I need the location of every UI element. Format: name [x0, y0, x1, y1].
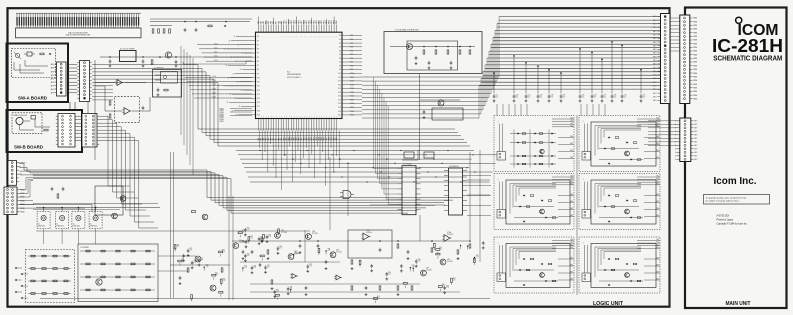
- wire bundle below IC5 (verticals): [260, 131, 340, 191]
- connector J11 (right panel edge upper): [680, 15, 698, 104]
- svg-text:RL0: RL0: [656, 176, 659, 178]
- svg-text:4.7K: 4.7K: [181, 260, 184, 262]
- bus left risers: [479, 17, 499, 118]
- sub box around Q21: [95, 186, 123, 215]
- resistor matrix block B: [78, 244, 158, 302]
- svg-text:4.7K: 4.7K: [276, 291, 279, 293]
- svg-text:XT: XT: [226, 65, 228, 67]
- label Q18: [336, 250, 342, 254]
- svg-text:4.7K: 4.7K: [254, 267, 257, 269]
- svg-text:PD3: PD3: [350, 47, 353, 49]
- capacitor C32: [195, 29, 198, 31]
- capacitor: [182, 254, 185, 262]
- op-amp IC4a: [117, 80, 122, 86]
- capacitor C11: [109, 60, 112, 62]
- capacitor C42: [62, 188, 65, 190]
- svg-text:4.7K: 4.7K: [267, 267, 270, 269]
- connector J102 (SW-A): [57, 62, 67, 96]
- wire verticals left of IC5: [181, 46, 193, 175]
- svg-text:PWM5: PWM5: [220, 117, 224, 119]
- svg-text:CTCX: CTCX: [212, 76, 216, 78]
- IC5 right pins: [338, 35, 362, 116]
- junction: [467, 245, 468, 249]
- connector J1 display ribbon: [16, 13, 141, 28]
- svg-text:RL2: RL2: [570, 123, 573, 125]
- svg-text:P7: P7: [257, 65, 259, 67]
- svg-text:PWM7: PWM7: [220, 121, 224, 123]
- svg-text:PB29: PB29: [331, 137, 333, 141]
- svg-text:SW0: SW0: [570, 194, 573, 196]
- svg-text:PB18: PB18: [304, 137, 306, 141]
- dashed box IC4: [115, 97, 140, 123]
- svg-text:0.01: 0.01: [604, 97, 607, 99]
- label Q16: [312, 231, 318, 235]
- svg-text:CTCX: CTCX: [212, 97, 216, 99]
- Q7 wires: [420, 99, 460, 119]
- svg-text:RL0: RL0: [570, 239, 573, 241]
- junction: [325, 249, 330, 255]
- labels J5: [20, 189, 25, 213]
- diode-resistor rows (logic A1): [510, 130, 556, 168]
- capacitor C12: [142, 60, 145, 62]
- svg-text:4.7K: 4.7K: [453, 279, 456, 281]
- wires tone row to block B: [44, 229, 96, 244]
- pin stubs (logic B1): [637, 118, 660, 159]
- capacitor: [245, 240, 248, 248]
- tone IC row (dashed boxes): [37, 212, 102, 229]
- svg-text:4.7K: 4.7K: [247, 229, 250, 231]
- label Q19: [426, 268, 432, 272]
- svg-text:0.01: 0.01: [582, 97, 585, 99]
- svg-text:PD17: PD17: [350, 100, 354, 102]
- svg-text:PD20: PD20: [350, 111, 354, 113]
- resistor: [263, 234, 265, 241]
- svg-text:8: 8: [675, 152, 676, 154]
- svg-text:4.7K: 4.7K: [309, 266, 312, 268]
- resistor array RA1: [150, 26, 172, 34]
- connector (logic B3): [582, 243, 591, 282]
- wires J12 into main unit: [648, 121, 677, 146]
- svg-text:X4: X4: [339, 50, 341, 52]
- svg-text:be subject to change without n: be subject to change without notice.: [706, 199, 740, 202]
- svg-text:SCHEMATIC DIAGRAM: SCHEMATIC DIAGRAM: [713, 53, 782, 62]
- logic sub-board B2 (dashed): [579, 174, 660, 230]
- junction: [204, 265, 209, 271]
- svg-text:P17: P17: [257, 106, 260, 108]
- svg-text:2SC4081: 2SC4081: [426, 269, 432, 271]
- svg-text:0.01: 0.01: [496, 97, 499, 99]
- corner wires (logic B2): [595, 184, 641, 214]
- wire long verticals mid-bottom: [171, 150, 481, 300]
- transistor Q35: [330, 252, 336, 258]
- wires analog row: [36, 207, 160, 212]
- transistor Q31: [233, 243, 239, 249]
- svg-text:PB3: PB3: [266, 137, 268, 140]
- svg-text:P15: P15: [257, 98, 260, 100]
- svg-text:SW2: SW2: [656, 272, 659, 274]
- svg-text:4.7K: 4.7K: [177, 246, 180, 248]
- svg-text:LOGIC UNIT: LOGIC UNIT: [593, 301, 624, 307]
- connector J201 (SW-B): [56, 114, 75, 148]
- svg-text:NRM: NRM: [693, 69, 697, 71]
- transistor Q36: [421, 270, 427, 276]
- caps and resistors mid-bottom: [242, 238, 471, 290]
- label Q14: [239, 240, 245, 244]
- wire risers below Q box: [374, 77, 398, 204]
- svg-text:C47: C47: [604, 95, 607, 97]
- svg-text:XT: XT: [228, 77, 230, 79]
- svg-text:C49: C49: [624, 95, 627, 97]
- svg-text:XT: XT: [239, 106, 241, 108]
- inner board box (logic A3): [506, 244, 570, 288]
- diodes and resistors (logic B1): [599, 137, 643, 165]
- IC6 internals: [155, 72, 178, 97]
- svg-text:NRM: NRM: [693, 98, 697, 100]
- diodes and resistors (logic B2): [599, 195, 643, 223]
- IC5 top pins: [257, 17, 338, 33]
- svg-text:P6: P6: [257, 61, 259, 63]
- svg-text:SW0: SW0: [656, 258, 659, 260]
- svg-text:DTC144E: DTC144E: [281, 232, 287, 234]
- resistor: [260, 255, 264, 260]
- svg-text:NRM: NRM: [693, 54, 697, 56]
- svg-text:4.7K: 4.7K: [279, 248, 282, 250]
- wire bundle from J4/J5 (tight band): [33, 170, 462, 213]
- wire SW-A internal: [14, 60, 48, 73]
- svg-text:PD10: PD10: [350, 73, 354, 75]
- connector J12 (right panel edge lower): [675, 118, 698, 162]
- svg-text:0.01: 0.01: [624, 97, 627, 99]
- svg-text:SW0: SW0: [570, 258, 573, 260]
- svg-text:TONE SQL: TONE SQL: [72, 226, 80, 228]
- svg-text:CHA-701 DISPLAY-A UNIT: CHA-701 DISPLAY-A UNIT: [68, 31, 88, 34]
- bus horizontal lines: [479, 17, 661, 90]
- svg-text:P12: P12: [257, 86, 260, 88]
- svg-text:Q20: Q20: [447, 259, 450, 261]
- svg-text:SW3: SW3: [570, 279, 573, 281]
- svg-text:X16: X16: [338, 96, 341, 98]
- svg-text:RL3: RL3: [570, 183, 573, 185]
- Q-box components: [390, 28, 475, 69]
- capacitor: [187, 248, 193, 256]
- microprocessor IC5 HD6433: [256, 32, 343, 118]
- svg-text:PD1: PD1: [350, 39, 353, 41]
- svg-text:NJM2904: NJM2904: [447, 234, 453, 236]
- IC5 inner pin numbers: [258, 36, 338, 117]
- svg-text:PD14: PD14: [350, 88, 354, 90]
- svg-text:PWM4: PWM4: [220, 116, 224, 118]
- svg-text:PWM3: PWM3: [220, 114, 224, 116]
- wires SW-A to J2: [69, 64, 78, 92]
- print codes: [717, 214, 748, 225]
- svg-text:X14: X14: [338, 88, 341, 90]
- wire top-left power rail: [150, 19, 252, 22]
- label Q15: [281, 230, 287, 234]
- wires center region: [370, 150, 490, 241]
- connector (logic A3): [497, 243, 506, 282]
- resistor: [191, 295, 193, 302]
- resistor matrix block A: [26, 250, 75, 303]
- wires mid-bottom: [232, 240, 471, 284]
- svg-text:IC8 NJM2902: IC8 NJM2902: [449, 166, 459, 168]
- svg-text:NRM: NRM: [693, 18, 697, 20]
- logic sub-board A2 (dashed): [494, 174, 574, 230]
- svg-text:PWM1: PWM1: [220, 110, 224, 112]
- svg-text:X17: X17: [338, 100, 341, 102]
- svg-text:X6: X6: [339, 58, 341, 60]
- svg-text:IC11b: IC11b: [447, 232, 451, 234]
- resistor R31: [208, 25, 212, 27]
- svg-text:PWM0: PWM0: [220, 109, 224, 111]
- connector J10 (main right edge): [653, 14, 670, 104]
- wires feeding logic unit: [497, 104, 605, 295]
- svg-text:4.7K: 4.7K: [476, 257, 479, 259]
- svg-text:XT: XT: [237, 82, 239, 84]
- resistor R41: [57, 194, 59, 198]
- SW-B inner circuit box: [12, 113, 42, 134]
- svg-text:PD5: PD5: [350, 54, 353, 56]
- svg-text:X19: X19: [338, 107, 341, 109]
- svg-text:LCDC: LCDC: [214, 60, 218, 62]
- svg-text:MEMO-CH [M-CH]: MEMO-CH [M-CH]: [14, 115, 28, 117]
- logic sub-board A1 (dashed): [494, 116, 574, 172]
- svg-text:2SD1664: 2SD1664: [239, 242, 245, 244]
- resistor: [436, 253, 440, 258]
- svg-text:LCDC: LCDC: [214, 52, 218, 54]
- svg-text:SW2: SW2: [570, 150, 573, 152]
- label IC11b: [447, 232, 453, 236]
- diode D5: [224, 25, 226, 27]
- svg-text:X7: X7: [339, 62, 341, 64]
- capacitor: [266, 234, 272, 242]
- label Q20: [447, 259, 453, 263]
- svg-text:C43: C43: [551, 95, 554, 97]
- svg-text:8: 8: [675, 149, 676, 151]
- svg-text:RL2: RL2: [570, 244, 573, 246]
- wires block B to right cluster: [36, 231, 310, 271]
- svg-text:0.01: 0.01: [594, 97, 597, 99]
- svg-text:TONE SQL: TONE SQL: [90, 226, 98, 228]
- svg-text:PD9: PD9: [350, 69, 353, 71]
- svg-text:NRM: NRM: [693, 21, 697, 23]
- svg-text:C45: C45: [582, 95, 585, 97]
- svg-text:1C LM358N: 1C LM358N: [80, 247, 89, 249]
- wires between J10 and J11: [670, 18, 680, 51]
- resistor: [434, 243, 436, 250]
- svg-text:To upgrade quality, some compo: To upgrade quality, some components may: [706, 196, 748, 199]
- transistor Q22: [120, 196, 126, 202]
- svg-text:XT: XT: [227, 102, 229, 104]
- capacitor: [443, 286, 449, 294]
- capacitor: [244, 228, 250, 236]
- pin stubs (logic B3): [637, 239, 660, 280]
- svg-text:4.7K: 4.7K: [190, 250, 193, 252]
- logic sub-board B1 (dashed): [579, 116, 660, 172]
- IC5 left pins: [224, 36, 260, 116]
- svg-text:RL3: RL3: [570, 125, 573, 127]
- transistor Q32: [275, 233, 281, 239]
- capacitor: [264, 265, 270, 273]
- svg-text:PD11: PD11: [350, 77, 354, 79]
- svg-text:NRM: NRM: [693, 87, 697, 89]
- svg-text:4.7K: 4.7K: [244, 267, 247, 269]
- resistor: [403, 283, 407, 288]
- inner board box (logic B3): [591, 244, 656, 288]
- svg-text:C50: C50: [643, 95, 646, 97]
- svg-text:NRM: NRM: [693, 25, 697, 27]
- svg-text:XT: XT: [241, 90, 243, 92]
- svg-text:4.7K: 4.7K: [261, 238, 264, 240]
- svg-text:4.7K: 4.7K: [377, 298, 380, 300]
- logic sub-board B3 (dashed): [579, 237, 660, 293]
- connector (logic B1): [582, 121, 591, 160]
- small connector boxes above IC7: [404, 152, 434, 158]
- svg-text:Q18: Q18: [336, 250, 339, 252]
- resistor: [219, 250, 225, 257]
- pin stubs (logic A3): [552, 239, 574, 280]
- svg-text:0.01: 0.01: [551, 97, 554, 99]
- connector J5 (dual row): [4, 187, 20, 215]
- svg-text:RL3: RL3: [570, 247, 573, 249]
- IC5 part number text: [287, 72, 302, 79]
- svg-text:NRM: NRM: [693, 32, 697, 34]
- diodes and resistors (logic B3): [599, 258, 643, 286]
- svg-text:P10: P10: [257, 77, 260, 79]
- notice box: [704, 195, 770, 205]
- resistor: [220, 279, 225, 286]
- svg-text:X2: X2: [339, 43, 341, 45]
- connector J2 (main, to SW-A): [80, 61, 90, 102]
- capacitor: [244, 254, 250, 262]
- resistor: [451, 278, 456, 285]
- svg-text:NRM: NRM: [693, 80, 697, 82]
- wire J4 feeds into tight band: [20, 164, 34, 175]
- switch S21: [31, 116, 36, 120]
- wire vertical x419: [419, 74, 421, 160]
- svg-text:LCDC: LCDC: [214, 56, 218, 58]
- svg-text:RL1: RL1: [570, 242, 573, 244]
- svg-text:P1: P1: [257, 40, 259, 42]
- svg-text:RL3: RL3: [656, 125, 659, 127]
- svg-text:4.7K: 4.7K: [242, 232, 245, 234]
- capacitor: [400, 264, 403, 272]
- capacitor: [258, 236, 264, 244]
- inner board box (logic B2): [591, 180, 656, 224]
- svg-text:0.01: 0.01: [528, 97, 531, 99]
- transistor Q3: [165, 52, 171, 58]
- resistor R22: [109, 114, 111, 118]
- svg-text:NRM: NRM: [693, 65, 697, 67]
- svg-text:4.7K: 4.7K: [439, 249, 442, 251]
- transistor Q21: [112, 213, 118, 219]
- corner wires (logic A3): [510, 247, 556, 277]
- ground symbols mid-bottom: [242, 251, 460, 296]
- svg-text:RL1: RL1: [570, 178, 573, 180]
- transistor (logic A1): [540, 149, 544, 153]
- svg-text:SW-B BOARD: SW-B BOARD: [14, 145, 43, 150]
- SW-A board outline: [7, 44, 69, 103]
- svg-text:SW2: SW2: [656, 150, 659, 152]
- svg-text:P14: P14: [257, 94, 260, 96]
- svg-text:Icom Inc.: Icom Inc.: [714, 176, 757, 187]
- svg-text:PD21: PD21: [350, 115, 354, 117]
- svg-text:SW3: SW3: [656, 157, 659, 159]
- svg-text:SW2: SW2: [570, 272, 573, 274]
- label IC11: [366, 230, 372, 234]
- svg-text:RL3: RL3: [656, 247, 659, 249]
- Q7 sub box: [432, 108, 463, 120]
- svg-text:SW-A BOARD: SW-A BOARD: [18, 95, 47, 100]
- svg-text:RL0: RL0: [570, 118, 573, 120]
- capacitor row under bus: [493, 94, 646, 102]
- svg-text:4.7K: 4.7K: [442, 286, 445, 288]
- svg-text:XT: XT: [240, 69, 242, 71]
- junction: [413, 268, 414, 272]
- svg-text:P9: P9: [257, 73, 259, 75]
- svg-text:0.01: 0.01: [540, 97, 543, 99]
- transistor Q23: [96, 279, 102, 285]
- transistor Q20: [440, 259, 446, 265]
- diodes and resistors (logic A3): [514, 258, 558, 286]
- svg-text:CTCX: CTCX: [212, 84, 216, 86]
- svg-text:4.7K: 4.7K: [223, 280, 226, 282]
- connector J4 (SP/MIC): [8, 161, 17, 186]
- svg-text:X11: X11: [338, 77, 341, 79]
- connector J3 (main, to SW-B): [82, 114, 99, 148]
- svg-text:IC7 TC4066: IC7 TC4066: [403, 164, 412, 166]
- svg-text:RL0: RL0: [656, 118, 659, 120]
- svg-text:RL3: RL3: [656, 183, 659, 185]
- SW-A inner circuit box: [12, 49, 56, 78]
- resistor: [212, 273, 218, 280]
- wires above tone row: [33, 204, 158, 210]
- capacitor: [251, 265, 257, 273]
- svg-text:4.7K: 4.7K: [206, 266, 209, 268]
- svg-text:X21: X21: [338, 115, 341, 117]
- capacitor: [277, 246, 283, 254]
- svg-text:PD8: PD8: [350, 65, 353, 67]
- svg-text:SW3: SW3: [570, 157, 573, 159]
- svg-text:0.01: 0.01: [643, 97, 646, 99]
- capacitor: [482, 241, 485, 249]
- svg-text:P16: P16: [257, 102, 260, 104]
- transistor (logic B3): [625, 273, 630, 278]
- svg-text:Copyright © 1994 by Icom Inc.: Copyright © 1994 by Icom Inc.: [717, 223, 748, 226]
- svg-text:NRM: NRM: [693, 62, 697, 64]
- svg-text:IC11: IC11: [366, 230, 369, 232]
- svg-text:RL0: RL0: [656, 239, 659, 241]
- svg-text:(CHD-751,HN62...): (CHD-751,HN62...): [287, 77, 302, 79]
- logic sub-board A3 (dashed): [494, 237, 574, 293]
- net label stack left of IC5: [220, 109, 253, 123]
- svg-text:RL0: RL0: [570, 176, 573, 178]
- svg-text:4.7K: 4.7K: [247, 255, 250, 257]
- junction: [474, 255, 479, 261]
- svg-text:XT: XT: [224, 86, 226, 88]
- svg-text:PWM6: PWM6: [220, 119, 224, 121]
- svg-text:SW1: SW1: [570, 265, 573, 267]
- svg-text:PB5: PB5: [271, 137, 273, 140]
- svg-text:P3: P3: [257, 49, 259, 51]
- svg-text:SW3: SW3: [656, 215, 659, 217]
- svg-text:C42: C42: [540, 95, 543, 97]
- diode pairs far bottom-left: [15, 267, 28, 299]
- svg-text:C41: C41: [528, 95, 531, 97]
- svg-text:P11: P11: [257, 82, 260, 84]
- svg-text:8: 8: [675, 159, 676, 161]
- svg-text:A-5755-2EX: A-5755-2EX: [717, 214, 730, 217]
- box around IC11a: [348, 230, 392, 258]
